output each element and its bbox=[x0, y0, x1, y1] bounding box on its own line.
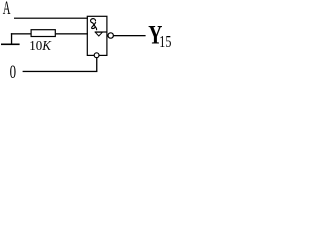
tri-state qualifier triangle bbox=[95, 32, 102, 36]
svg-text:A: A bbox=[3, 0, 11, 19]
net label Y15 output bbox=[148, 21, 171, 51]
tri-state qualifier line bbox=[95, 31, 107, 32]
enable input inversion bubble bbox=[94, 53, 99, 58]
output inversion bubble bbox=[108, 33, 113, 38]
gate function label & bbox=[91, 19, 97, 31]
svg-text:15: 15 bbox=[159, 33, 171, 51]
ground bbox=[1, 44, 20, 46]
wire gate output to Y15 bbox=[113, 35, 145, 36]
svg-text:10K: 10K bbox=[29, 37, 52, 53]
resistor value label 10K bbox=[29, 37, 52, 53]
wire enable input vertical bbox=[96, 58, 97, 72]
wire ground stem bbox=[11, 33, 12, 43]
op-amp U1 tri-state AND gate box bbox=[87, 16, 107, 55]
resistor R 10K body bbox=[31, 30, 55, 37]
svg-text:0: 0 bbox=[10, 62, 16, 83]
wire ground to resistor bbox=[11, 33, 31, 34]
wire A input bbox=[14, 18, 88, 19]
wire resistor to gate bbox=[56, 33, 88, 34]
wire 0 input bbox=[23, 71, 98, 72]
